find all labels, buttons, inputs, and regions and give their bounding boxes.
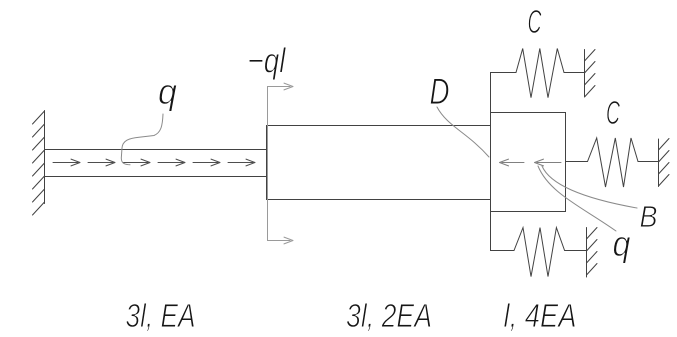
svg-text:D: D <box>430 71 450 112</box>
leader from arrows to q <box>538 166 616 231</box>
distributed load arrows q in thin bar <box>53 159 255 166</box>
svg-text:q: q <box>613 223 631 264</box>
bottom spring <box>491 212 587 277</box>
leader from q to bar <box>121 114 163 165</box>
reaction arrows in block (pointing left) <box>500 159 562 166</box>
svg-text:l, 4EA: l, 4EA <box>504 297 577 334</box>
left fixed wall <box>33 111 45 216</box>
thin bar (segment 3l, EA) <box>45 150 267 177</box>
svg-text:q: q <box>158 71 177 112</box>
leader from D to block <box>437 107 489 157</box>
bottom spring wall <box>587 228 598 278</box>
svg-text:C: C <box>606 94 621 131</box>
svg-text:3l, 2EA: 3l, 2EA <box>346 297 432 334</box>
right spring C <box>566 138 659 187</box>
force line for -ql <box>268 83 294 244</box>
svg-text:−ql: −ql <box>248 42 287 81</box>
svg-text:B: B <box>640 199 658 234</box>
svg-text:C: C <box>528 3 543 40</box>
top spring wall <box>585 50 596 98</box>
middle bar (segment 3l, 2EA) <box>267 126 491 200</box>
leader from arrows to B <box>542 166 637 208</box>
right spring wall <box>659 139 670 187</box>
top spring C <box>491 49 585 113</box>
block D (segment l, 4EA) <box>491 113 566 212</box>
svg-text:3l, EA: 3l, EA <box>126 297 196 334</box>
